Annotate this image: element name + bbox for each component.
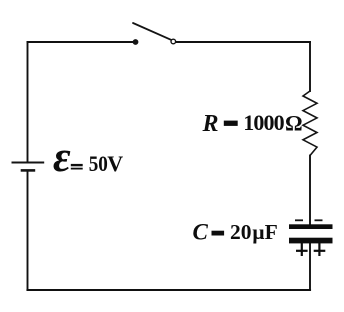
label R equals bar [224, 121, 238, 126]
svg-text:1000: 1000 [243, 110, 284, 135]
wire top-right segment [176, 41, 310, 43]
wire left lower (battery to bottom corner) [27, 171, 29, 291]
capacitor C plus sign left [296, 243, 308, 256]
svg-text:50: 50 [89, 153, 108, 176]
svg-text:ε: ε [53, 134, 71, 181]
svg-text:20: 20 [230, 220, 252, 244]
capacitor C minus sign right [315, 219, 323, 221]
capacitor C bottom plate [289, 238, 333, 244]
label EMF equals top bar [71, 164, 83, 166]
capacitor C plus sign right [314, 243, 326, 256]
capacitor C minus sign left [295, 219, 303, 221]
resistor R zigzag [303, 91, 317, 156]
label EMF equals bottom bar [71, 168, 83, 170]
svg-text:V: V [107, 151, 123, 176]
wire right lower (capacitor to bottom corner) [309, 243, 311, 290]
svg-text:R: R [202, 111, 219, 137]
switch S contact dot [133, 39, 139, 45]
battery EMF long plate (positive) [12, 162, 45, 164]
wire right middle (resistor to capacitor) [309, 156, 311, 225]
capacitor C top plate [289, 224, 333, 229]
switch S pivot circle [171, 39, 176, 44]
battery EMF short plate (negative) [21, 169, 36, 172]
wire bottom rail [28, 289, 311, 291]
wire left upper (top corner to battery) [27, 42, 29, 163]
label C equals bar [212, 231, 225, 236]
svg-text:Ω: Ω [285, 111, 303, 136]
wire right upper (top corner to resistor) [309, 42, 311, 91]
switch S blade (open arm) [133, 23, 171, 40]
svg-text:C: C [193, 219, 209, 244]
wire top-left segment [28, 41, 134, 43]
svg-text:µF: µF [252, 220, 278, 244]
